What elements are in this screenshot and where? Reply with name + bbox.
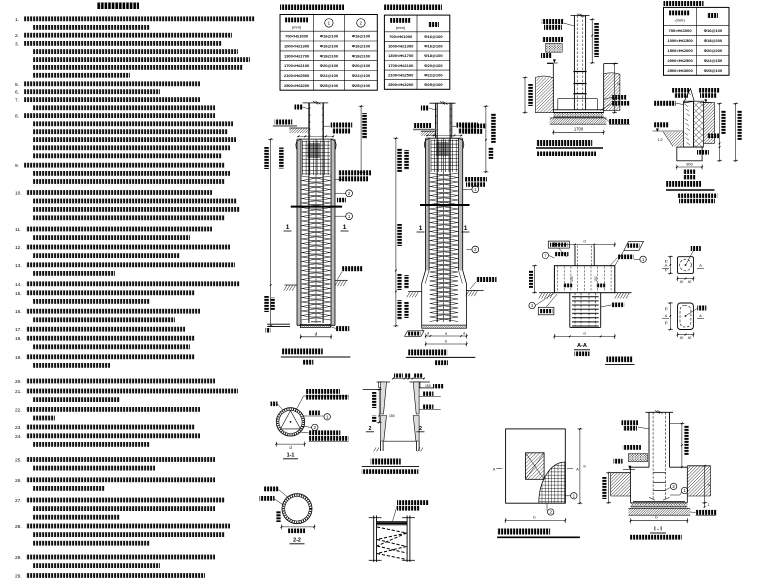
svg-text:21.: 21. (15, 389, 22, 395)
shaft left wall (381, 382, 387, 414)
pile B column stub (435, 103, 437, 138)
svg-text:75: 75 (665, 260, 669, 264)
svg-text:14.: 14. (15, 282, 22, 288)
table 1 title (280, 5, 344, 11)
svg-text:Φ16@100: Φ16@100 (352, 34, 371, 39)
cap right hoop label (618, 255, 634, 260)
svg-text:7.: 7. (15, 98, 19, 104)
wall left fill label (654, 122, 669, 127)
pile B ground line left (413, 129, 436, 131)
TJx soil hatch left (535, 76, 553, 113)
pile B title (408, 350, 447, 356)
svg-text:2500<H≤3200: 2500<H≤3200 (388, 82, 414, 87)
pile B grade label (476, 277, 497, 282)
cap ground lines (539, 292, 554, 294)
shaft left dim (378, 390, 380, 423)
svg-text:Φ16@100: Φ16@100 (320, 43, 339, 48)
svg-text:700<H≤1000: 700<H≤1000 (669, 28, 693, 33)
fsec right dim (704, 466, 706, 503)
svg-text:Φ18@200: Φ18@200 (704, 38, 723, 43)
svg-text:h: h (618, 81, 620, 86)
fsec bottom dim (631, 520, 688, 522)
TJx left dim (524, 78, 526, 113)
pile A section cut line (291, 206, 342, 208)
stirrup detail top band (377, 520, 408, 522)
svg-text:12.: 12. (15, 245, 22, 251)
shaft bottom (384, 440, 416, 442)
section 1-1 top leader (295, 396, 304, 412)
fsec pad label (690, 511, 696, 513)
pile A ground line left (273, 125, 297, 127)
pile B left dim (395, 138, 397, 326)
svg-text:26.: 26. (15, 478, 22, 484)
svg-text:29.: 29. (15, 574, 22, 580)
shaft top dims (393, 378, 425, 380)
TJx column (573, 16, 575, 110)
svg-text:2: 2 (419, 426, 422, 432)
wall title (666, 181, 701, 187)
svg-text:2100<H≤2500: 2100<H≤2500 (388, 72, 414, 77)
pile B bottom dims (426, 335, 467, 337)
cap top-left boxed label (548, 241, 569, 248)
footing plan rebar fan (539, 462, 566, 503)
svg-text:1300<H≤1700: 1300<H≤1700 (284, 53, 310, 58)
pile A spiral stirrups (302, 176, 331, 320)
pile B lining walls (426, 138, 430, 270)
svg-text:1000<H≤1300: 1000<H≤1300 (284, 43, 310, 48)
cap title text (606, 357, 632, 363)
cap left dim (534, 266, 536, 293)
svg-text:Φ22@100: Φ22@100 (352, 73, 371, 78)
cap pad label right (611, 303, 624, 308)
svg-text:150: 150 (570, 276, 574, 282)
cap top-left bubble (542, 252, 548, 258)
svg-text:1: 1 (464, 225, 468, 232)
stirrup detail zigzag (377, 527, 407, 560)
section square 2 (678, 303, 694, 330)
svg-text:Φ16@100: Φ16@100 (352, 43, 371, 48)
svg-text:2500<H≤3200: 2500<H≤3200 (284, 83, 310, 88)
svg-text:Φ16@100: Φ16@100 (424, 44, 443, 49)
pile B toe weld label parallelogram (405, 331, 424, 337)
svg-text:Φ20@100: Φ20@100 (352, 63, 371, 68)
pile under cap (569, 293, 571, 328)
pile B lining top collar (424, 138, 429, 149)
svg-text:22.: 22. (15, 407, 22, 413)
svg-text:900: 900 (686, 161, 693, 166)
svg-text:75: 75 (665, 268, 669, 272)
svg-text:d: d (463, 332, 465, 336)
pile A grade label (342, 266, 363, 271)
section 1-1 right bubbles (303, 415, 324, 417)
svg-text:1.: 1. (15, 17, 19, 23)
pile A toe label (336, 326, 350, 331)
svg-text:27.: 27. (15, 498, 22, 504)
TJx pit outline (552, 64, 554, 113)
svg-text:28.: 28. (15, 555, 22, 561)
svg-text:1700<H≤2100: 1700<H≤2100 (284, 63, 310, 68)
footing plan bubbles (565, 495, 570, 497)
sheet title 基础设计总说明 (97, 3, 139, 10)
svg-text:1300<H≤1700: 1300<H≤1700 (388, 53, 414, 58)
section 1-1 triangle (281, 411, 301, 429)
pile A grade hatch right (335, 279, 348, 281)
svg-text:28.: 28. (15, 524, 22, 530)
pile A column label (295, 105, 303, 110)
svg-text:1: 1 (286, 224, 290, 231)
svg-text:1000<H≤1300: 1000<H≤1300 (388, 44, 414, 49)
pile A top cage mesh (302, 141, 304, 176)
fsec left labels (622, 420, 639, 425)
wall footing (677, 147, 702, 161)
pile A grade hatch left (285, 284, 298, 286)
wall bottom dim (677, 166, 702, 168)
footing plan title (497, 529, 550, 535)
shaft top collar (377, 381, 391, 383)
pile A right leaders and bubbles (335, 178, 343, 180)
section 1-1 lower label (309, 430, 341, 435)
svg-text:23.: 23. (15, 425, 22, 431)
svg-text:Φ18@100: Φ18@100 (352, 53, 371, 58)
pile A column stub (308, 103, 310, 139)
svg-text:Φ16@100: Φ16@100 (424, 34, 443, 39)
svg-text:d: d (427, 332, 429, 336)
TJx footing (553, 109, 603, 111)
table 1 header (285, 18, 308, 23)
footing plan column hatched (526, 453, 545, 480)
svg-text:2500<H≤3000: 2500<H≤3000 (667, 68, 693, 73)
table 3 header (669, 11, 690, 16)
svg-text:1: 1 (708, 503, 710, 507)
shaft right wall (413, 382, 419, 414)
pile A right top label (331, 123, 353, 128)
section 1-1 dim (276, 443, 304, 445)
cap column (574, 246, 576, 266)
cap stirrup verticals (557, 267, 559, 293)
svg-text:25.: 25. (15, 458, 22, 464)
svg-text:6.: 6. (15, 90, 19, 96)
wall right dims (719, 104, 721, 161)
section 2-2 rot label (276, 511, 280, 522)
table 2 grid (384, 15, 449, 89)
fsec ground left (611, 472, 631, 474)
section 1-1 phi label (271, 402, 278, 407)
svg-text:700<H≤1000: 700<H≤1000 (285, 34, 309, 39)
svg-text:(mm): (mm) (292, 25, 302, 30)
footing plan outline (506, 429, 566, 503)
table 1 grid (280, 15, 377, 91)
table 3 title (664, 1, 704, 6)
svg-text:(mm): (mm) (396, 25, 406, 30)
pile B right top label (457, 123, 479, 128)
wall right top label (698, 88, 719, 93)
cap left bubble and pad box (529, 302, 535, 308)
TJx right small labels (612, 95, 627, 100)
fsec right col dim (681, 423, 683, 467)
svg-text:Φ18@100: Φ18@100 (424, 53, 443, 58)
stirrup detail label (397, 500, 429, 505)
pile A right dim (360, 106, 362, 172)
TJx bottom dim (553, 131, 603, 133)
section 1 left dim (669, 257, 671, 274)
svg-text:Φ22@150: Φ22@150 (704, 58, 723, 63)
pile A bearing layer mark (267, 323, 290, 325)
fsec bubbles (670, 483, 676, 489)
cap bottom dim (554, 335, 614, 337)
pile B right dim (485, 106, 487, 172)
svg-text:17.: 17. (15, 327, 22, 333)
pile A lining top collar (296, 139, 301, 150)
fsec level mark (614, 459, 623, 464)
svg-text:Φ22@100: Φ22@100 (320, 73, 339, 78)
fsec bottom mat (631, 502, 688, 504)
svg-text:1700: 1700 (574, 127, 584, 132)
svg-text:700<H≤1000: 700<H≤1000 (389, 34, 413, 39)
fsec column (648, 412, 650, 467)
pile A left dim line (270, 139, 272, 326)
svg-text:3.: 3. (15, 41, 19, 47)
svg-text:9.: 9. (15, 163, 19, 169)
svg-text:18.: 18. (15, 336, 22, 342)
footing plan centerlines (496, 468, 504, 470)
pile B column label (421, 106, 429, 111)
svg-text:d: d (583, 239, 585, 244)
wall notes (677, 194, 717, 198)
svg-text:Φ20@200: Φ20@200 (704, 48, 723, 53)
svg-text:40: 40 (688, 280, 692, 284)
svg-text:11.: 11. (15, 227, 21, 233)
section 2-2 rings (282, 494, 312, 524)
fsec left dim (608, 473, 610, 503)
svg-text:19.: 19. (15, 355, 22, 361)
svg-text:A: A (576, 468, 579, 472)
wall body stone strip (693, 101, 703, 147)
svg-text:(mm): (mm) (675, 18, 685, 23)
footing plan bottom dim (506, 519, 566, 521)
svg-text:1: 1 (343, 224, 347, 231)
svg-text:2.: 2. (15, 33, 19, 39)
TJx right dim (591, 19, 593, 63)
table 3 grid (664, 7, 730, 75)
TJx column ties (573, 71, 586, 73)
svg-text:d: d (583, 330, 585, 335)
table 2 title (384, 5, 442, 11)
pile A title (282, 349, 323, 355)
svg-text:1: 1 (419, 225, 423, 232)
section 2 left dim (669, 303, 671, 330)
svg-text:16.: 16. (15, 309, 22, 315)
TJx level mark (541, 53, 552, 58)
svg-text:1-1: 1-1 (287, 453, 295, 459)
svg-text:15.: 15. (15, 291, 22, 297)
svg-text:A: A (493, 468, 496, 472)
svg-text:40: 40 (680, 336, 684, 340)
TJx left labels (542, 19, 564, 24)
pile B right bubbles (463, 188, 472, 190)
pile A main rebars (308, 103, 310, 323)
TJx title (536, 140, 592, 146)
svg-text:I - I: I - I (654, 527, 662, 533)
svg-text:1000<H≤1500: 1000<H≤1500 (667, 38, 693, 43)
pile B top cage mesh (430, 140, 432, 173)
wall top labels (672, 88, 689, 93)
table 2 header (390, 18, 411, 23)
svg-text:40: 40 (680, 280, 684, 284)
svg-text:Φ25@100: Φ25@100 (352, 83, 371, 88)
section 1 bottom dim (678, 278, 694, 280)
section 2-2 dim (282, 526, 315, 528)
cap top dim (554, 244, 614, 246)
fsec pit walls (630, 467, 632, 503)
svg-text:Φ16@100: Φ16@100 (704, 28, 723, 33)
svg-text:150: 150 (594, 276, 598, 282)
cap right skew label (624, 241, 644, 250)
svg-text:Φ16@100: Φ16@100 (320, 34, 339, 39)
section square 1 (678, 257, 694, 274)
svg-text:75: 75 (665, 321, 669, 325)
svg-text:Φ25@100: Φ25@100 (320, 83, 339, 88)
svg-text:5.: 5. (15, 82, 19, 88)
section 1-1 outer ring (276, 408, 304, 436)
pile A bottom dim (301, 336, 331, 338)
svg-text:2-2: 2-2 (293, 538, 301, 544)
svg-text:h: h (708, 482, 710, 487)
wall body rubble strip (684, 101, 694, 147)
TJx right dim (614, 64, 616, 113)
stirrup detail verticals (373, 516, 375, 563)
svg-text:2000<H≤2500: 2000<H≤2500 (667, 58, 693, 63)
wall base stone label (707, 134, 719, 139)
svg-text:1700<H≤2100: 1700<H≤2100 (388, 63, 414, 68)
shaft title (371, 459, 401, 465)
svg-text:Φ20@100: Φ20@100 (424, 63, 443, 68)
svg-text:Φ22@100: Φ22@100 (424, 72, 443, 77)
svg-text:2: 2 (369, 426, 372, 432)
svg-text:Φ20@100: Φ20@100 (320, 63, 339, 68)
fsec ground right (687, 465, 710, 467)
svg-text:A: A (699, 263, 702, 268)
svg-text:24.: 24. (15, 434, 22, 440)
pile B grade hatch right (466, 289, 483, 291)
pile B grade hatch left (408, 291, 422, 293)
pile A toe band (300, 325, 330, 328)
fsec gravel block (628, 454, 647, 462)
pile B strengthen hoop label (461, 124, 486, 129)
section 2-2 labels left (264, 487, 279, 492)
cap body (554, 266, 614, 293)
pile B main rebars (436, 103, 438, 322)
pile B top 50 dims (426, 137, 463, 139)
svg-text:150: 150 (425, 384, 431, 388)
svg-text:2100<H≤2500: 2100<H≤2500 (284, 73, 310, 78)
pile B spiral stirrups (430, 173, 459, 322)
svg-text:20.: 20. (15, 379, 22, 385)
pile A top 50 dims (297, 138, 334, 140)
TJx C10 pad label (605, 118, 609, 122)
TJx soil hatch right (604, 73, 620, 111)
svg-text:8.: 8. (15, 114, 19, 120)
fsec column ties (653, 472, 666, 474)
footing plan right dim (579, 429, 581, 503)
svg-text:A-A: A-A (577, 343, 587, 349)
svg-text:150: 150 (389, 414, 395, 418)
svg-text:Φ25@100: Φ25@100 (704, 68, 723, 73)
svg-text:b: b (445, 340, 447, 344)
svg-text:13.: 13. (15, 263, 22, 269)
pile B toe band (422, 325, 467, 328)
svg-text:Φ18@100: Φ18@100 (320, 53, 339, 58)
svg-text:1:2: 1:2 (657, 138, 662, 142)
pile B section cut line (420, 204, 470, 206)
svg-text:7: 7 (544, 254, 546, 258)
svg-text:10.: 10. (15, 191, 22, 197)
svg-text:Φ25@100: Φ25@100 (424, 82, 443, 87)
pile A lining walls (297, 139, 301, 325)
section 2 bottom dim (678, 334, 694, 336)
svg-text:75: 75 (665, 307, 669, 311)
pile B bell outline (422, 270, 426, 283)
wall cap (684, 89, 695, 104)
TJx gravel block (546, 43, 563, 52)
svg-text:1500<H≤2000: 1500<H≤2000 (667, 48, 693, 53)
svg-text:40: 40 (688, 336, 692, 340)
